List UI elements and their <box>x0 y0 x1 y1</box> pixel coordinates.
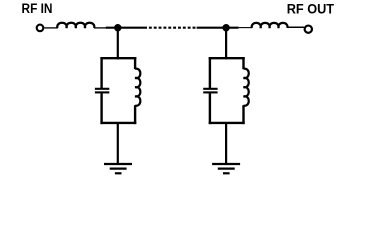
capacitor C1 top plate <box>95 88 109 90</box>
tank 2 loop right upper wire <box>242 57 244 69</box>
node A junction dot <box>114 24 121 31</box>
tank 2 loop left lower wire <box>209 93 211 124</box>
dashed wire (omitted filter sections) <box>149 27 196 29</box>
wire: stem node B down to tank 2 <box>225 29 227 59</box>
tank 1 loop top bar <box>100 57 136 59</box>
wire: input terminal to L1 <box>44 27 58 29</box>
wire: L2 to output terminal <box>287 26 304 28</box>
wire: node B to L2 (thin) <box>239 27 253 29</box>
node B junction dot <box>222 24 229 31</box>
tank 2 loop left upper wire <box>209 57 211 88</box>
capacitor C2 bottom plate <box>203 91 217 93</box>
output terminal circle (RF OUT) <box>305 26 312 33</box>
tank 1 loop left upper wire <box>100 57 102 88</box>
wire: L1 to node A (thin part) <box>94 27 106 29</box>
tank 1 loop right lower wire <box>134 105 136 124</box>
svg-text:RF OUT: RF OUT <box>287 1 335 16</box>
tank 2 loop right lower wire <box>242 105 244 124</box>
input terminal circle (RF IN) <box>37 25 44 32</box>
shunt inductor L3 (tank 1 coil) <box>135 69 140 106</box>
capacitor C1 bottom plate <box>95 91 109 93</box>
ground symbol 2 <box>212 164 240 173</box>
tank 1 loop left lower wire <box>100 93 102 124</box>
ground symbol 1 <box>104 164 132 173</box>
wire: into node A <box>106 27 147 29</box>
tank 1 loop bottom bar <box>100 122 136 124</box>
wire: stem node A down to tank 1 <box>117 29 119 59</box>
shunt inductor L4 (tank 2 coil) <box>244 69 249 106</box>
tank 2 loop top bar <box>209 57 245 59</box>
series inductor L2 <box>252 23 288 28</box>
tank 2 loop bottom bar <box>209 122 245 124</box>
wire: dashes to node B <box>197 27 239 29</box>
capacitor C2 top plate <box>203 88 217 90</box>
tank 1 loop right upper wire <box>134 57 136 69</box>
series inductor L1 <box>57 23 94 28</box>
wire: tank 1 to ground <box>117 123 119 164</box>
svg-text:RF IN: RF IN <box>22 1 53 16</box>
wire: tank 2 to ground <box>225 123 227 164</box>
